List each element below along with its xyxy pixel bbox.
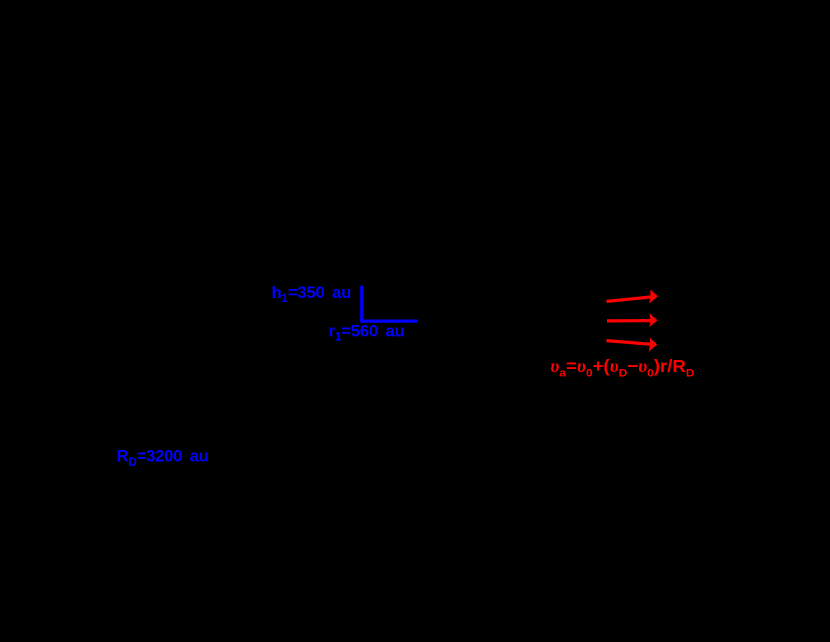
svg-text:r1=560 au: r1=560 au: [329, 322, 405, 344]
svg-text:h1=350 au: h1=350 au: [272, 283, 352, 305]
svg-text:RD=3200 au: RD=3200 au: [117, 446, 209, 469]
svg-text:υa=υ0+(υD−υ0)r/RD: υa=υ0+(υD−υ0)r/RD: [550, 355, 694, 379]
